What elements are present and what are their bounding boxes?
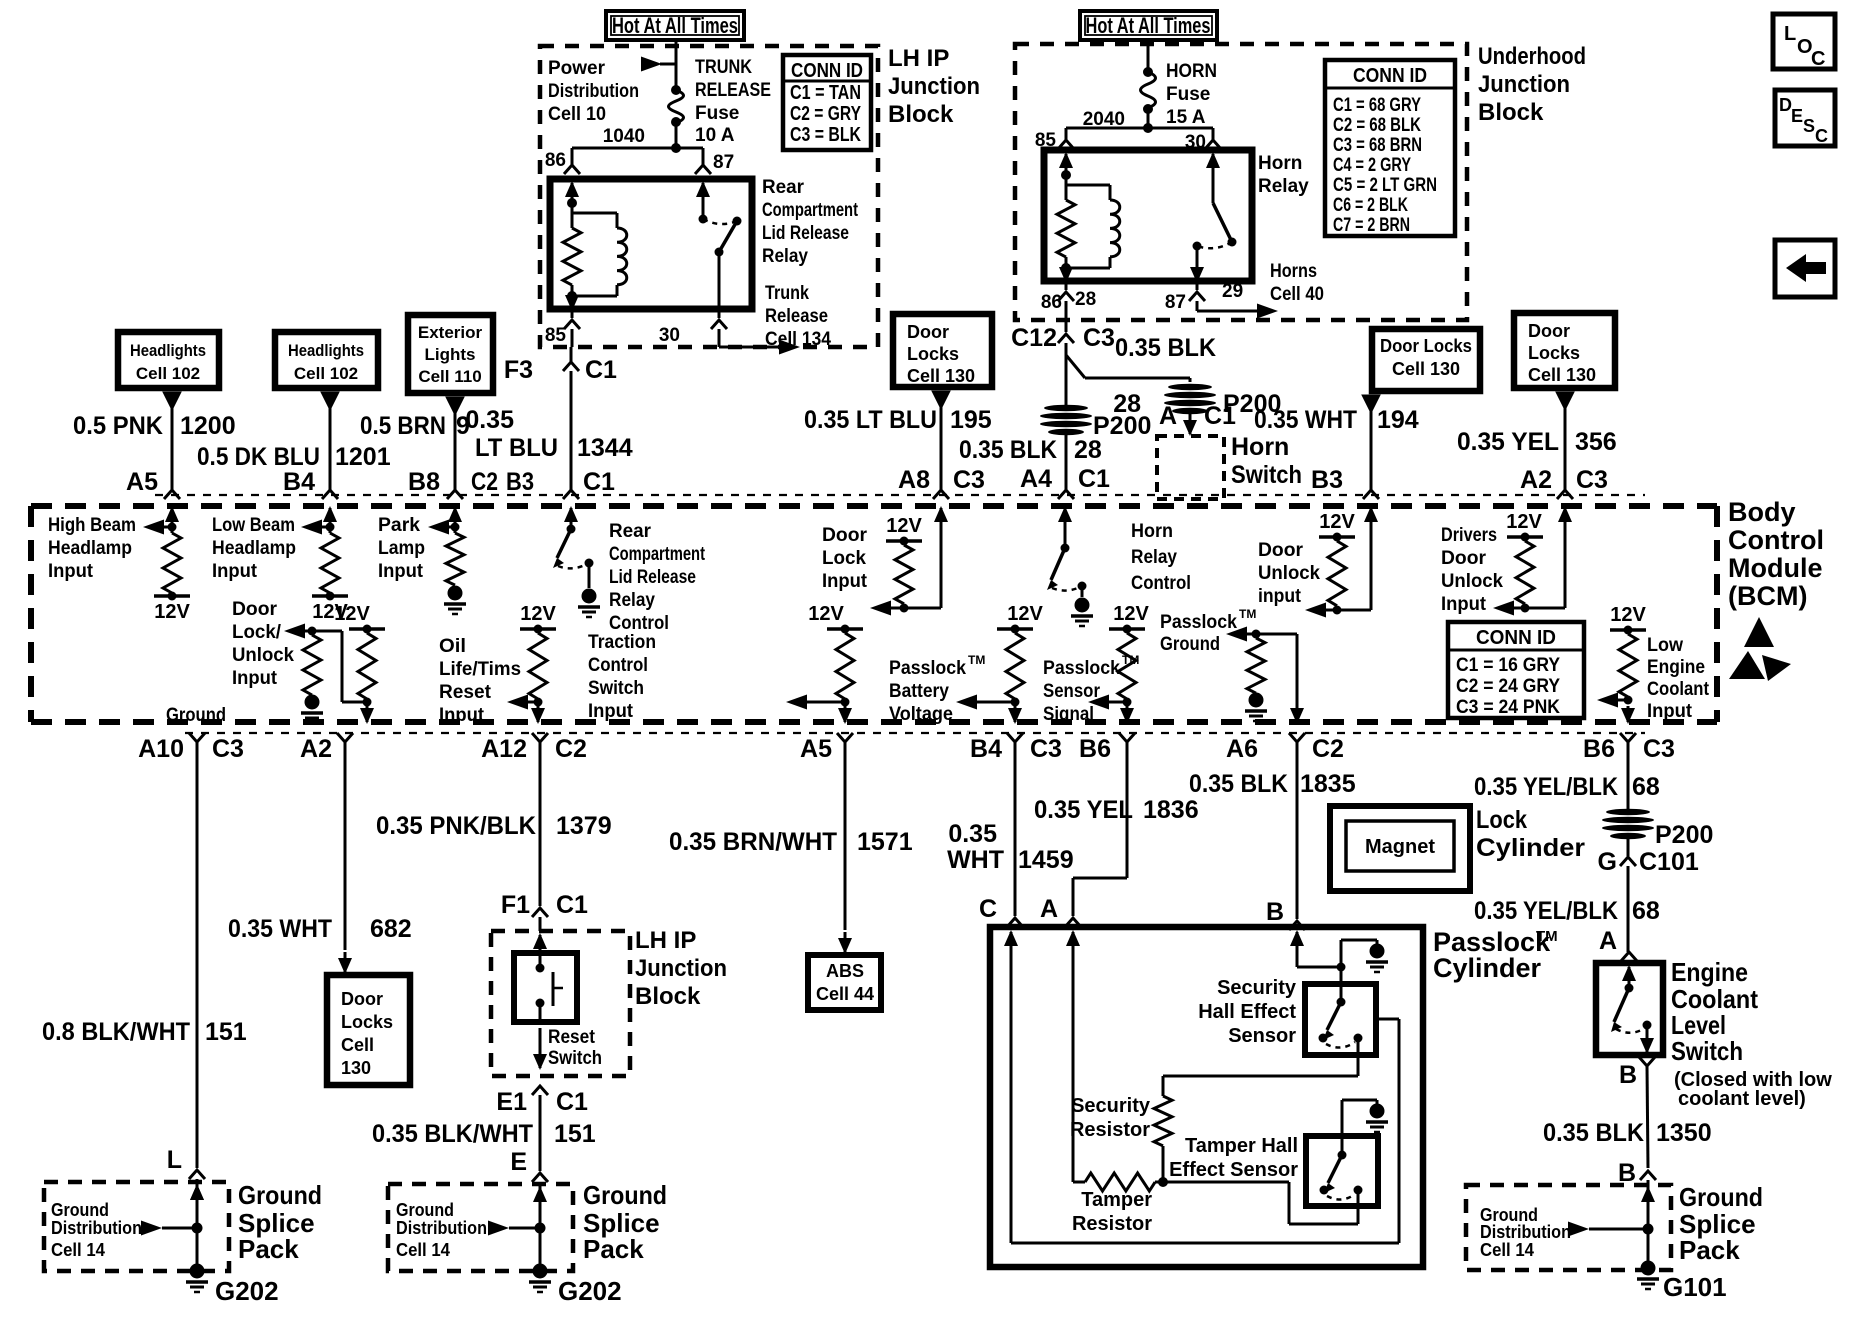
svg-text:C1 = 16 GRY: C1 = 16 GRY	[1456, 655, 1560, 676]
svg-text:Power: Power	[548, 58, 606, 79]
svg-text:0.35 YEL/BLK: 0.35 YEL/BLK	[1474, 773, 1618, 801]
Ground Distribution Cell 14 dashed box (middle)	[388, 1184, 573, 1271]
svg-text:85: 85	[545, 325, 567, 346]
svg-text:A2: A2	[300, 735, 332, 763]
svg-text:Block: Block	[1478, 99, 1544, 126]
svg-text:C3: C3	[1030, 735, 1062, 763]
svg-text:C1: C1	[556, 1088, 588, 1116]
wire fuse to bus	[1147, 109, 1150, 128]
svg-text:Cell 14: Cell 14	[396, 1240, 450, 1260]
svg-text:C2: C2	[471, 468, 498, 496]
arrow from Power Distribution to fuse wire	[660, 63, 676, 66]
svg-text:C1: C1	[585, 356, 617, 384]
svg-text:Junction: Junction	[1478, 71, 1570, 98]
svg-text:12V: 12V	[808, 603, 844, 625]
svg-text:Cell 102: Cell 102	[294, 364, 358, 383]
pin 30 connector below relay	[718, 309, 721, 318]
svg-text:C3 = 68 BRN: C3 = 68 BRN	[1333, 135, 1422, 156]
ground G202 left	[190, 1264, 205, 1279]
svg-text:B: B	[1266, 898, 1284, 926]
ground inside passlock (tamper)	[1341, 1100, 1344, 1155]
BCM Passlock Ground: resistor to ground	[1243, 633, 1297, 636]
svg-text:B8: B8	[408, 468, 440, 496]
svg-text:Cell 110: Cell 110	[418, 367, 481, 386]
BCM Traction Control Switch Input: resistor to 12V	[827, 627, 863, 631]
svg-text:C12: C12	[1011, 324, 1057, 352]
fuse HORN 15A	[1143, 67, 1153, 77]
wire fuse to bus	[675, 122, 678, 148]
Reset Switch box	[514, 953, 577, 1022]
pin B6	[1119, 733, 1135, 742]
svg-text:0.35 PNK/BLK: 0.35 PNK/BLK	[376, 812, 536, 840]
svg-text:86: 86	[1041, 292, 1062, 313]
pin A6 C2	[1289, 733, 1305, 742]
svg-text:C2: C2	[555, 735, 587, 763]
security sensor to C bus	[1376, 1018, 1399, 1021]
wire 0.35 BLK 1835 pin A6 to B	[1296, 742, 1299, 919]
passlock C terminal wire	[1010, 932, 1013, 954]
svg-text:TRUNK: TRUNK	[695, 57, 752, 78]
svg-text:Cell: Cell	[341, 1035, 374, 1055]
svg-text:Cell 130: Cell 130	[1528, 365, 1596, 385]
svg-text:Unlock: Unlock	[232, 645, 294, 666]
wire 0.5 DK BLU 1201 pin B4	[321, 392, 339, 410]
svg-text:C6 = 2 BLK: C6 = 2 BLK	[1333, 195, 1408, 216]
svg-text:Rear: Rear	[609, 521, 652, 542]
svg-text:Ground: Ground	[166, 705, 226, 726]
svg-text:Locks: Locks	[341, 1012, 393, 1032]
svg-text:Distribution: Distribution	[548, 81, 639, 102]
Horn Switch dashed box	[1157, 436, 1224, 499]
svg-text:Locks: Locks	[907, 344, 959, 364]
svg-text:12V: 12V	[1007, 603, 1043, 625]
ground G202 middle	[533, 1264, 548, 1279]
svg-text:Cell 130: Cell 130	[907, 366, 975, 386]
wire to Trunk Release Cell 134	[718, 329, 721, 347]
svg-text:Control: Control	[588, 655, 648, 676]
svg-text:Effect Sensor: Effect Sensor	[1169, 1159, 1298, 1181]
pin 87 connector below horn relay	[1196, 281, 1199, 290]
svg-text:Ground: Ground	[396, 1200, 454, 1220]
svg-text:C101: C101	[1639, 848, 1699, 876]
ground splice wire middle	[539, 1188, 542, 1264]
pin A5	[837, 733, 853, 742]
svg-text:CONN ID: CONN ID	[1353, 65, 1427, 87]
svg-text:G202: G202	[558, 1276, 622, 1306]
svg-text:G101: G101	[1663, 1272, 1727, 1302]
BCM Door Lock/Unlock Input: resistors to ground and 12V	[301, 630, 342, 633]
svg-text:LT BLU: LT BLU	[475, 434, 558, 462]
wire 0.35 YEL 1836 pin B6 to A	[1126, 742, 1129, 878]
arrow into Horn Switch	[1189, 412, 1192, 434]
svg-text:Cell 14: Cell 14	[51, 1240, 105, 1260]
svg-text:C1: C1	[1078, 465, 1110, 493]
svg-text:194: 194	[1377, 406, 1419, 434]
box Door Locks Cell 130 (B3)	[1372, 329, 1480, 391]
connector P200 (main)	[1044, 405, 1088, 411]
svg-text:0.35 BRN/WHT: 0.35 BRN/WHT	[669, 828, 837, 856]
svg-text:15 A: 15 A	[1166, 107, 1206, 128]
svg-text:A10: A10	[138, 735, 184, 763]
BCM input High Beam Headlamp: resistor to 12V	[171, 508, 174, 526]
box Door Locks Cell 130 (A8)	[893, 314, 992, 387]
LH IP junction block dashed box (reset switch)	[491, 931, 630, 1076]
svg-text:F3: F3	[504, 356, 533, 384]
svg-text:Distribution: Distribution	[396, 1218, 487, 1238]
svg-text:C1 = 68 GRY: C1 = 68 GRY	[1333, 95, 1421, 116]
svg-text:Cylinder: Cylinder	[1476, 834, 1585, 862]
svg-text:A12: A12	[481, 735, 527, 763]
svg-text:68: 68	[1632, 773, 1660, 801]
ground inside passlock (security)	[1370, 944, 1385, 959]
Underhood junction block dashed box	[1015, 44, 1467, 320]
svg-text:A5: A5	[800, 735, 832, 763]
svg-text:Relay: Relay	[1131, 547, 1177, 568]
svg-text:B4: B4	[970, 735, 1002, 763]
pin 85 connector below relay	[571, 309, 574, 318]
security sensor output to resistor	[1357, 1042, 1360, 1076]
svg-text:Ground: Ground	[1679, 1182, 1763, 1212]
svg-text:Release: Release	[765, 306, 828, 327]
svg-text:130: 130	[341, 1058, 371, 1078]
svg-text:Rear: Rear	[762, 177, 805, 198]
svg-text:Security: Security	[1217, 977, 1297, 999]
svg-text:E1: E1	[496, 1088, 527, 1116]
svg-text:195: 195	[950, 406, 992, 434]
svg-text:Block: Block	[888, 101, 954, 128]
svg-text:Switch: Switch	[588, 678, 644, 699]
svg-text:12V: 12V	[1506, 511, 1542, 533]
svg-text:L: L	[167, 1146, 182, 1174]
svg-text:C2 = 24 GRY: C2 = 24 GRY	[1456, 676, 1560, 697]
wire 0.35 WHT 194 pin B3 right	[1362, 395, 1380, 413]
svg-text:151: 151	[205, 1018, 247, 1046]
svg-text:Relay: Relay	[762, 246, 808, 267]
svg-text:12V: 12V	[886, 515, 922, 537]
svg-text:C3: C3	[212, 735, 244, 763]
svg-text:Cylinder: Cylinder	[1433, 953, 1542, 983]
svg-text:Drivers: Drivers	[1441, 525, 1497, 546]
svg-text:0.35: 0.35	[465, 406, 514, 434]
svg-text:A: A	[1159, 402, 1177, 430]
svg-text:C1: C1	[583, 468, 615, 496]
svg-text:LH IP: LH IP	[888, 45, 949, 72]
wire from Hot At All Times to fuse F TRUNK RELEASE	[675, 42, 678, 90]
BCM input Park Lamp: resistor to ground	[454, 508, 457, 526]
ESD symbol	[1744, 617, 1774, 647]
svg-text:Passlock: Passlock	[1043, 658, 1120, 679]
passlock B terminal wire	[1296, 932, 1299, 954]
svg-text:1835: 1835	[1300, 770, 1356, 798]
svg-text:Headlights: Headlights	[288, 341, 364, 360]
svg-text:Input: Input	[439, 705, 485, 726]
svg-text:Locks: Locks	[1528, 343, 1580, 363]
svg-text:Ground: Ground	[583, 1180, 667, 1210]
svg-text:Headlamp: Headlamp	[48, 538, 132, 559]
svg-text:Cell 44: Cell 44	[816, 984, 874, 1004]
LOC navigation box	[1773, 14, 1835, 69]
svg-text:Input: Input	[588, 701, 634, 722]
bus wire to relay pins 85 and 30	[1066, 127, 1213, 130]
svg-text:Horns: Horns	[1270, 261, 1317, 282]
back arrow box	[1775, 240, 1835, 297]
svg-text:L: L	[1784, 23, 1796, 45]
BCM Passlock Sensor Signal: resistor to 12V	[1109, 627, 1145, 631]
wire 0.35 LT BLU 195 pin A8	[932, 391, 950, 409]
svg-text:0.35 BLK: 0.35 BLK	[1115, 334, 1216, 362]
relay coil branch pin 86	[571, 183, 574, 199]
svg-text:0.5 DK BLU: 0.5 DK BLU	[197, 443, 320, 471]
svg-text:Door: Door	[232, 599, 278, 620]
svg-text:Door: Door	[1258, 540, 1304, 561]
svg-text:1350: 1350	[1656, 1119, 1712, 1147]
svg-text:B4: B4	[283, 468, 315, 496]
svg-text:87: 87	[1165, 292, 1186, 313]
svg-text:Control: Control	[1131, 573, 1191, 594]
svg-text:1040: 1040	[603, 126, 645, 147]
svg-text:Headlamp: Headlamp	[212, 538, 296, 559]
pin A2	[337, 733, 353, 742]
svg-text:Tamper Hall: Tamper Hall	[1185, 1135, 1298, 1157]
svg-text:87: 87	[713, 152, 734, 173]
svg-text:0.5 PNK: 0.5 PNK	[73, 412, 163, 440]
svg-text:C1: C1	[556, 891, 588, 919]
svg-text:0.35: 0.35	[948, 820, 997, 848]
LH IP junction block dashed box	[540, 46, 878, 347]
pin A12 C2	[532, 733, 548, 742]
svg-text:Resistor: Resistor	[1070, 1119, 1150, 1141]
svg-text:C4 = 2 GRY: C4 = 2 GRY	[1333, 155, 1411, 176]
svg-text:Security: Security	[1071, 1095, 1151, 1117]
svg-text:1200: 1200	[180, 412, 236, 440]
svg-text:0.35 BLK/WHT: 0.35 BLK/WHT	[372, 1120, 533, 1148]
svg-text:Ground: Ground	[238, 1180, 322, 1210]
wire 0.35 YEL/BLK 68 upper	[1627, 742, 1630, 810]
DESC navigation box	[1775, 90, 1835, 146]
pin 86 connector	[564, 165, 580, 174]
svg-text:C3: C3	[1643, 735, 1675, 763]
svg-text:28: 28	[1074, 436, 1102, 464]
svg-text:Door: Door	[1528, 321, 1570, 341]
svg-text:0.35 BLK: 0.35 BLK	[959, 436, 1057, 464]
ground G101	[1641, 1261, 1656, 1276]
wire 0.5 BRN 9 pin B8	[446, 397, 464, 415]
BCM Drivers Door Unlock Input: resistor to 12V	[1507, 535, 1543, 539]
svg-text:RELEASE: RELEASE	[695, 80, 771, 101]
svg-text:1571: 1571	[857, 828, 913, 856]
wire 0.8 BLK/WHT 151	[196, 742, 199, 1168]
svg-text:Lid Release: Lid Release	[609, 567, 696, 588]
svg-text:Cell 40: Cell 40	[1270, 284, 1324, 305]
svg-text:10 A: 10 A	[695, 125, 735, 146]
BCM Passlock Battery Voltage: resistor to 12V	[997, 627, 1033, 631]
wire 0.35 WHT 1459 pin B4 to C	[1014, 742, 1017, 916]
svg-text:0.35 YEL/BLK: 0.35 YEL/BLK	[1474, 897, 1618, 925]
svg-text:Door: Door	[341, 989, 383, 1009]
svg-text:P200: P200	[1655, 821, 1713, 849]
svg-text:Horn: Horn	[1258, 153, 1302, 174]
box ABS Cell 44	[808, 955, 881, 1010]
svg-text:Exterior: Exterior	[418, 323, 483, 342]
svg-text:Compartment: Compartment	[762, 200, 859, 221]
svg-text:Lights: Lights	[425, 345, 476, 364]
svg-text:coolant level): coolant level)	[1678, 1088, 1806, 1110]
svg-text:1379: 1379	[556, 812, 612, 840]
Body Control Module dashed box	[155, 494, 1645, 496]
svg-text:Junction: Junction	[888, 73, 980, 100]
horn relay coil	[1110, 200, 1120, 257]
svg-text:Body: Body	[1728, 497, 1796, 527]
svg-text:F1: F1	[501, 891, 530, 919]
connector P200 right	[1606, 809, 1650, 815]
Magnet box Lock Cylinder	[1330, 806, 1470, 891]
relay resistor	[563, 228, 581, 285]
pin B4 C3	[1007, 733, 1023, 742]
svg-text:Battery: Battery	[889, 681, 949, 702]
svg-text:Engine: Engine	[1647, 657, 1705, 678]
svg-text:B3: B3	[1311, 466, 1343, 494]
svg-text:356: 356	[1575, 428, 1617, 456]
svg-text:Pack: Pack	[1679, 1235, 1740, 1265]
svg-text:Cell 10: Cell 10	[548, 104, 606, 125]
svg-text:0.35 WHT: 0.35 WHT	[228, 915, 332, 943]
BCM Low Engine Coolant Input: resistor to 12V	[1610, 628, 1646, 632]
svg-text:Oil: Oil	[439, 636, 466, 657]
svg-text:12V: 12V	[520, 603, 556, 625]
svg-text:Park: Park	[378, 515, 420, 536]
svg-text:Coolant: Coolant	[1647, 679, 1710, 700]
svg-text:Sensor: Sensor	[1228, 1025, 1296, 1047]
svg-text:12V: 12V	[1113, 603, 1149, 625]
svg-text:WHT: WHT	[947, 846, 1004, 874]
svg-text:682: 682	[370, 915, 412, 943]
svg-text:C3 = 24 PNK: C3 = 24 PNK	[1456, 697, 1560, 718]
svg-text:Switch: Switch	[1671, 1036, 1743, 1066]
wire into reset switch	[539, 935, 542, 951]
svg-text:Compartment: Compartment	[609, 544, 706, 565]
svg-text:0.35 BLK: 0.35 BLK	[1543, 1119, 1644, 1147]
svg-text:Sensor: Sensor	[1043, 681, 1101, 702]
svg-text:CONN ID: CONN ID	[791, 60, 863, 82]
svg-text:12V: 12V	[1610, 604, 1646, 626]
svg-text:0.35 YEL: 0.35 YEL	[1457, 428, 1559, 456]
svg-text:1836: 1836	[1143, 796, 1199, 824]
svg-text:Fuse: Fuse	[1166, 84, 1210, 105]
svg-text:C2 = GRY: C2 = GRY	[790, 103, 862, 125]
svg-text:Magnet: Magnet	[1365, 836, 1435, 858]
svg-text:Door: Door	[1441, 548, 1487, 569]
svg-text:Life/Tims: Life/Tims	[439, 659, 521, 680]
svg-text:A4: A4	[1020, 465, 1052, 493]
svg-text:Lock: Lock	[822, 548, 866, 569]
bus wire to relay pins 86 and 87	[572, 147, 703, 150]
svg-text:Fuse: Fuse	[695, 103, 739, 124]
box Door Locks Cell 130 (A2)	[1514, 313, 1615, 388]
svg-text:TM: TM	[1239, 607, 1256, 621]
svg-text:S: S	[1803, 116, 1815, 136]
svg-text:Ground: Ground	[51, 1200, 109, 1220]
svg-text:C: C	[1815, 126, 1828, 146]
pin 85 connector	[1058, 140, 1074, 149]
svg-text:E: E	[510, 1148, 527, 1176]
svg-text:Input: Input	[48, 561, 94, 582]
CONN ID table LH IP	[783, 55, 871, 150]
wire 0.35 PNK/BLK 1379	[539, 742, 542, 906]
svg-text:Cell 130: Cell 130	[1392, 359, 1460, 379]
svg-text:12V: 12V	[334, 603, 370, 625]
svg-text:A8: A8	[898, 466, 930, 494]
svg-text:Pack: Pack	[583, 1234, 644, 1264]
svg-text:A: A	[1040, 895, 1058, 923]
svg-text:Low: Low	[1647, 635, 1683, 656]
wire 0.35 BRN/WHT 1571	[844, 742, 847, 930]
svg-text:C5 = 2 LT GRN: C5 = 2 LT GRN	[1333, 175, 1437, 196]
svg-text:Lock: Lock	[1476, 806, 1527, 834]
svg-text:HORN: HORN	[1166, 61, 1217, 82]
svg-text:B6: B6	[1583, 735, 1615, 763]
wire 0.35 YEL 356 pin A2	[1556, 392, 1574, 410]
svg-text:Underhood: Underhood	[1478, 43, 1586, 70]
svg-text:0.35 BLK: 0.35 BLK	[1189, 770, 1288, 798]
svg-text:Low Beam: Low Beam	[212, 515, 295, 536]
svg-text:C3 = BLK: C3 = BLK	[790, 124, 861, 146]
svg-text:C3: C3	[1576, 466, 1608, 494]
Hot At All Times label box (Underhood)	[1080, 11, 1217, 40]
svg-text:Input: Input	[1441, 594, 1487, 615]
svg-text:Input: Input	[1647, 701, 1693, 722]
svg-text:B: B	[1619, 1061, 1637, 1089]
security resistor	[1154, 1096, 1172, 1146]
svg-text:TM: TM	[1536, 928, 1558, 945]
svg-text:Relay: Relay	[1258, 176, 1309, 197]
svg-text:Door: Door	[822, 525, 868, 546]
svg-text:C2 = 68 BLK: C2 = 68 BLK	[1333, 115, 1421, 136]
svg-text:Engine: Engine	[1671, 957, 1748, 987]
box Door Locks Cell 130 (bottom)	[327, 975, 410, 1085]
Ground Distribution Cell 14 dashed box (right)	[1466, 1185, 1671, 1270]
svg-text:(BCM): (BCM)	[1728, 581, 1807, 611]
svg-text:Unlock: Unlock	[1258, 563, 1320, 584]
svg-text:C: C	[979, 895, 997, 923]
passlock A terminal wire	[1072, 932, 1075, 954]
svg-text:C1: C1	[1204, 402, 1236, 430]
svg-text:Switch: Switch	[548, 1048, 602, 1069]
box Headlights Cell 102 (left)	[118, 332, 219, 388]
svg-text:Distribution: Distribution	[51, 1218, 142, 1238]
svg-text:C7 = 2 BRN: C7 = 2 BRN	[1333, 215, 1410, 236]
svg-text:Cell 102: Cell 102	[136, 364, 200, 383]
svg-text:30: 30	[659, 325, 680, 346]
tamper hall effect sensor box	[1306, 1136, 1378, 1206]
svg-text:Lamp: Lamp	[378, 538, 425, 559]
svg-text:Module: Module	[1728, 553, 1823, 583]
svg-text:Resistor: Resistor	[1072, 1213, 1152, 1235]
horn relay resistor	[1057, 200, 1075, 257]
relay switch pin 87 to 30	[702, 183, 705, 199]
fuse TRUNK RELEASE 10A	[671, 85, 681, 95]
tamper path to tamper sensor	[1288, 1182, 1291, 1224]
svg-text:C3: C3	[1083, 324, 1115, 352]
Ground Distribution Cell 14 dashed box (left)	[44, 1182, 229, 1271]
svg-text:C: C	[1811, 48, 1825, 70]
pin A10 C3	[189, 733, 205, 742]
pin B6 C3 right	[1620, 733, 1636, 742]
svg-text:Hall Effect: Hall Effect	[1198, 1001, 1296, 1023]
svg-text:12V: 12V	[1319, 511, 1355, 533]
svg-text:Hot At All Times: Hot At All Times	[612, 13, 738, 38]
relay box Horn Relay	[1044, 150, 1252, 281]
BCM output Rear Compartment Lid Release Relay Control switch	[570, 508, 573, 526]
